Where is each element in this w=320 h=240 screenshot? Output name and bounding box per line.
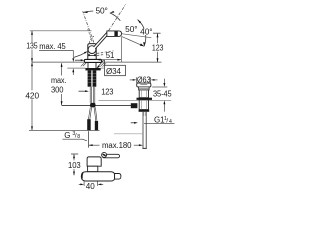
51 dimension xyxy=(104,52,116,58)
35-45 dimension xyxy=(152,86,167,88)
40 dimension xyxy=(83,182,85,186)
dashed lowered spout xyxy=(97,51,113,56)
deck hatching xyxy=(81,63,106,67)
bottom reference line (420 end) xyxy=(29,129,100,131)
svg-text:max. 45: max. 45 xyxy=(39,42,66,51)
svg-text:420: 420 xyxy=(25,91,39,100)
Ø63 dimension xyxy=(136,77,138,83)
pop-up rod line xyxy=(62,104,131,106)
counter bottom line xyxy=(67,67,85,69)
svg-text:123: 123 xyxy=(152,44,164,53)
threaded shank xyxy=(88,70,97,86)
svg-text:Ø34: Ø34 xyxy=(106,67,121,76)
flange xyxy=(137,83,151,87)
lock nut xyxy=(137,98,153,100)
tailpipe xyxy=(142,112,144,149)
body cylinder xyxy=(88,44,96,60)
svg-text:51: 51 xyxy=(106,51,115,60)
escutcheon xyxy=(84,59,101,62)
svg-text:135: 135 xyxy=(26,42,38,51)
svg-text:Ø63: Ø63 xyxy=(137,76,151,85)
svg-text:40: 40 xyxy=(86,182,95,191)
svg-text:50°: 50° xyxy=(96,6,108,15)
50 deg top arc xyxy=(84,11,94,12)
lower band xyxy=(139,110,150,112)
dash-dot forward lever ray xyxy=(109,4,126,30)
svg-text:40°: 40° xyxy=(140,27,152,36)
svg-text:max.: max. xyxy=(51,76,66,85)
ball joint xyxy=(88,46,96,54)
103 dimension xyxy=(71,153,78,155)
rod inlet xyxy=(131,103,138,108)
knob end circle xyxy=(102,152,107,157)
top reference line xyxy=(30,30,92,32)
spout tip extension line xyxy=(120,37,122,62)
lever shaft xyxy=(94,31,110,48)
body upper xyxy=(87,157,101,166)
Ø34 label xyxy=(98,60,104,67)
123 right dimension xyxy=(153,32,161,34)
body upper xyxy=(139,90,148,98)
svg-text:103: 103 xyxy=(68,161,81,170)
svg-text:G: G xyxy=(64,131,70,140)
pipe junction xyxy=(90,103,95,108)
svg-text:50°: 50° xyxy=(125,25,137,34)
G1 1/4 label xyxy=(131,122,136,124)
left leaders to body/escutcheon xyxy=(73,52,86,57)
spout knob xyxy=(107,31,122,37)
svg-text:35-45: 35-45 xyxy=(153,90,172,99)
max.180 dimension xyxy=(88,131,90,147)
lever bar xyxy=(102,154,119,158)
max. 300 dimension xyxy=(61,63,63,75)
svg-text:123: 123 xyxy=(101,88,114,97)
dash-dot raised lever ray xyxy=(83,11,94,42)
right swing arc (50/40) xyxy=(138,20,146,47)
svg-text:300: 300 xyxy=(51,86,64,95)
svg-text:4: 4 xyxy=(169,119,172,125)
123 mid leader xyxy=(79,90,87,92)
counter top line xyxy=(32,61,162,63)
supply pipes lower + fittings xyxy=(88,107,97,121)
neck xyxy=(139,87,150,90)
basin bottom line at waste xyxy=(99,99,172,101)
body lower xyxy=(139,100,148,110)
spout barrel xyxy=(81,172,114,181)
svg-text:max.180: max.180 xyxy=(102,141,132,150)
left dimension vertical 135/420 xyxy=(31,31,33,131)
body below counter xyxy=(87,62,89,68)
supply pipes upper xyxy=(90,87,95,103)
mounting nut xyxy=(85,68,100,70)
rays from spout tip xyxy=(122,34,152,38)
